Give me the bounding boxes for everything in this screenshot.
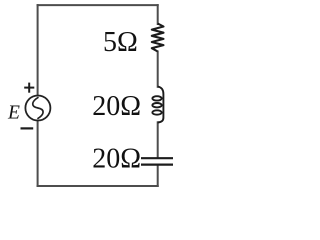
svg-text:20Ω: 20Ω [92,143,141,174]
svg-text:20Ω: 20Ω [92,91,141,122]
svg-text:E: E [7,102,20,123]
svg-text:5Ω: 5Ω [103,27,138,58]
